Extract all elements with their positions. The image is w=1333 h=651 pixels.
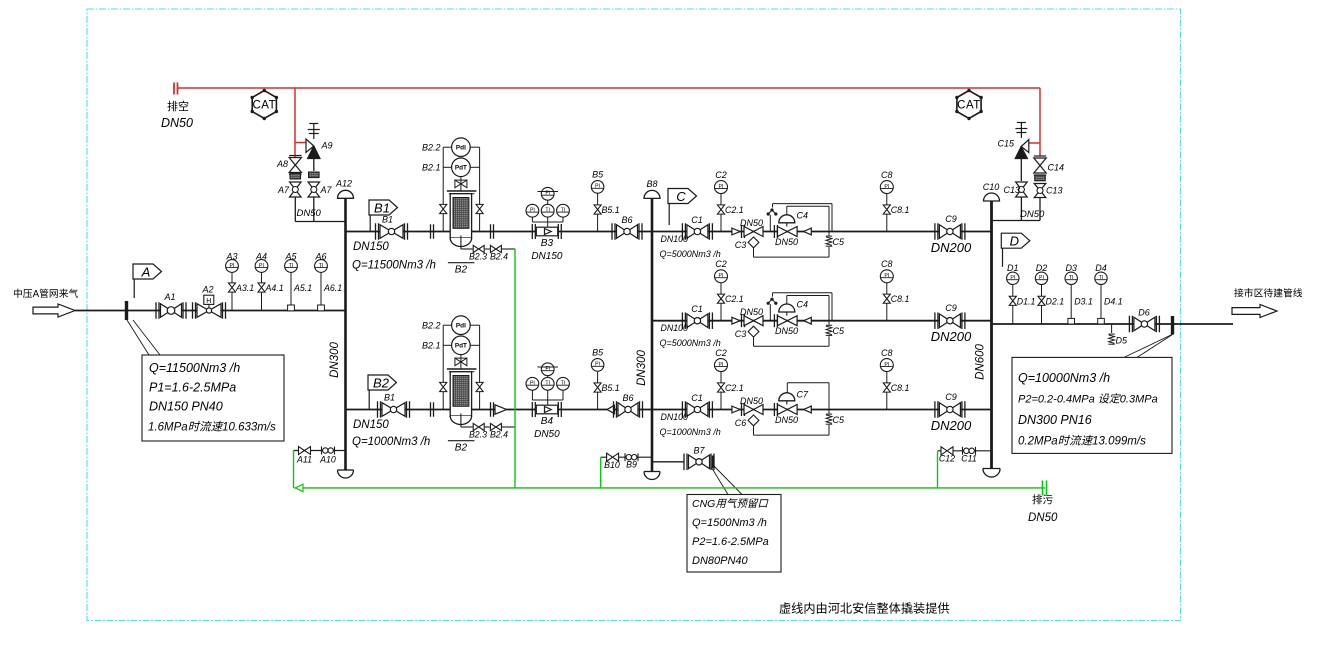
svg-text:C3: C3 [735,240,747,250]
svg-text:C1: C1 [691,393,703,403]
svg-text:DN100: DN100 [661,234,688,244]
dp tap left [442,325,444,409]
dp root valve right [476,204,483,209]
check valve before B6 row B2 [607,405,615,413]
CAT marker right [957,91,981,119]
root valve D1.1 [1009,296,1016,301]
under loop row C3 [753,426,755,435]
svg-text:C3: C3 [735,329,747,339]
pipe row row C3 [652,409,992,411]
valve C14 (vertical) [1034,158,1046,166]
instrument stem D3 [1070,285,1072,325]
svg-text:A1: A1 [163,292,175,302]
svg-text:A5.1: A5.1 [293,283,312,293]
root valve A3.1 [228,283,235,288]
blind flange B7 [712,456,714,469]
valve C13 left (vertical ball) [1016,182,1028,190]
filter vessel B2 [450,194,471,238]
valve C9 row C3 [934,401,936,418]
pilot diamond C6 row C3 [753,414,755,417]
instrument stem C2 row C3 [720,372,722,410]
svg-text:D3.1: D3.1 [1074,296,1093,306]
svg-text:PI: PI [719,273,724,279]
dp root valve left [440,204,447,209]
svg-text:PI: PI [530,381,535,387]
svg-text:TI: TI [319,263,324,269]
pilot diamond C3 row C1 [753,236,755,239]
svg-text:DN50: DN50 [775,237,798,247]
meter gauge bus [531,390,533,400]
svg-text:D1: D1 [1007,263,1019,273]
svg-text:DN50: DN50 [740,218,763,228]
cap bottom right header [983,469,1000,478]
svg-text:PI: PI [884,273,889,279]
svg-text:TI: TI [561,208,566,214]
svg-text:B6: B6 [622,393,633,403]
meter B3 flanges [531,224,533,239]
svg-text:D3: D3 [1065,263,1077,273]
dp tap right [479,147,481,231]
pipe row row C1 [652,231,992,233]
svg-text:C: C [676,189,686,204]
svg-text:B8: B8 [646,179,657,189]
svg-text:A7: A7 [277,185,290,195]
meter gauge mid [541,377,554,390]
svg-text:C9: C9 [945,392,957,402]
drain line C12 C11 [938,450,992,452]
svg-text:C4: C4 [797,210,809,220]
svg-text:DN150 PN40: DN150 PN40 [149,400,223,414]
svg-text:B5.1: B5.1 [602,205,620,215]
flange row C2 b [773,314,775,327]
svg-text:DN300: DN300 [636,350,648,386]
instrument stem C8 row C2 [886,283,888,321]
instrument stem A3 [231,272,233,311]
valve C1 row C3 [681,401,683,418]
gauge C8 row C3 [880,359,893,372]
svg-text:Q=11500Nm3 /h: Q=11500Nm3 /h [149,361,240,375]
cap B8 [644,190,660,198]
svg-text:接市区待建管线: 接市区待建管线 [1234,287,1303,300]
svg-text:B2: B2 [455,265,468,276]
green riser filters [514,249,516,488]
svg-text:B5: B5 [592,170,604,180]
pipe row B2 [346,409,653,411]
flag D [1001,233,1030,248]
spec box CNG [687,495,781,573]
svg-text:0.2MPa时流速13.099m/s: 0.2MPa时流速13.099m/s [1018,435,1146,448]
drain valve A11 [299,447,305,455]
instrument stem A5 [290,272,292,311]
outlet flow arrow [1232,305,1277,318]
instrument stem A6 [320,272,322,311]
svg-text:CAT: CAT [957,100,981,112]
relief pilot C5 row C3 [826,413,832,415]
filter cap [447,190,477,192]
svg-text:C8.1: C8.1 [891,383,910,393]
flag B1 [369,200,398,215]
svg-text:DN50: DN50 [534,429,560,440]
valve C13 right (vertical ball) [1034,184,1046,191]
gauge PdT B2.1 [452,336,471,355]
dp tap right [479,325,481,409]
flange joint after filter [490,224,492,239]
instrument stem B5 [597,371,599,410]
outer pilot loop row C1 [831,204,833,232]
header DN600 [990,201,993,469]
svg-text:TI: TI [289,263,294,269]
svg-text:C8: C8 [881,348,893,358]
thermowell D3 [1068,318,1075,324]
gauge A3 [226,260,239,273]
svg-text:C10: C10 [983,182,1000,192]
instrument stem A4 [261,272,263,311]
svg-text:C5: C5 [833,415,845,425]
svg-text:PdI: PdI [456,323,466,330]
svg-text:A8: A8 [276,159,288,169]
svg-text:DN600: DN600 [975,344,987,380]
svg-text:C9: C9 [945,303,957,313]
spec box A [142,355,284,441]
regulator valve row C1 [778,227,788,237]
svg-text:PI: PI [719,362,724,368]
svg-text:D2.1: D2.1 [1046,296,1065,306]
cap bottom left header [338,470,354,478]
svg-text:DN150: DN150 [353,241,389,253]
svg-text:A2: A2 [201,285,213,295]
valve B6 row B1 [611,223,613,240]
svg-text:H: H [206,298,211,305]
svg-text:PI: PI [595,362,600,368]
svg-text:B3: B3 [541,238,554,249]
gauge B5 [591,359,604,372]
sense line row C1 [769,215,771,232]
svg-text:PdT: PdT [455,165,467,172]
svg-text:A12: A12 [335,179,352,189]
check valve out row C2 [804,317,812,324]
filter drain pipe [460,414,462,428]
svg-text:A3: A3 [225,251,237,261]
meter gauge left [526,377,539,390]
svg-text:C8: C8 [881,170,893,180]
svg-text:DN100: DN100 [661,412,688,422]
svg-text:排污: 排污 [1032,493,1054,506]
relief valve A9 [306,139,314,153]
svg-text:C2: C2 [715,259,727,269]
dp tap left [442,147,444,231]
filter base line [448,262,475,264]
svg-text:1.6MPa时流速10.633m/s: 1.6MPa时流速10.633m/s [148,421,276,434]
thermowell A5 [288,305,295,311]
sense line row C2 [769,304,771,321]
monitor valve row C2 [744,316,754,326]
svg-text:TI: TI [545,381,550,387]
svg-text:B2.2: B2.2 [422,143,441,153]
drain valve A10 [321,447,323,455]
monitor valve row C1 [744,227,754,237]
gauge A4 [255,260,268,273]
svg-text:B1: B1 [374,200,390,215]
svg-text:C9: C9 [945,214,957,224]
svg-text:A6: A6 [314,251,326,261]
svg-text:B2.1: B2.1 [422,341,441,351]
svg-text:CAT: CAT [252,100,276,112]
green end joint [1042,481,1044,496]
svg-text:PdI: PdI [456,145,466,152]
svg-text:C12: C12 [939,454,955,464]
svg-text:Q=1000Nm3 /h: Q=1000Nm3 /h [660,427,721,437]
wire C13R to vent line [1039,198,1041,221]
svg-text:D4.1: D4.1 [1104,296,1123,306]
green riser A [293,451,295,488]
hatch spacer above right A7 [309,172,320,178]
green drain header [294,487,1045,489]
check valve out row C3 [804,406,812,413]
svg-text:A5: A5 [284,251,297,261]
svg-text:B10: B10 [604,460,620,470]
gauge C8 row C2 [880,270,893,283]
cap A12 [338,190,354,198]
svg-text:C1: C1 [691,215,703,225]
valve B6 row B2 [613,401,615,418]
drain valve B2.4 [490,423,496,430]
flag B2 [368,375,397,390]
filter vessel B2 [450,372,471,416]
flange row C3 a [741,403,743,416]
svg-text:DN200: DN200 [931,418,972,433]
wire A7 stack to vent line [313,197,315,222]
meter gauge mid [541,204,554,217]
svg-text:Q=1000Nm3 /h: Q=1000Nm3 /h [352,436,430,448]
svg-text:C15: C15 [997,139,1015,149]
svg-text:A3.1: A3.1 [235,283,254,293]
drain valve B10 [607,453,613,461]
flange row C1 b [773,225,775,238]
svg-text:PI: PI [1010,275,1015,281]
svg-text:DN50: DN50 [1020,209,1045,220]
valve A2 with handle [192,302,194,319]
svg-text:B2: B2 [455,443,468,454]
svg-text:B4: B4 [541,416,554,427]
drain valve B2.3 [473,423,479,430]
check valve row B2 [495,405,507,414]
svg-text:DN50: DN50 [775,326,798,336]
valve A7 right (vertical ball) [308,182,320,190]
meter gauge right [557,204,570,217]
gauge PdI B2.2 [452,316,471,335]
red vent header pipe [178,87,1041,89]
svg-text:C8: C8 [881,259,893,269]
svg-text:C2.1: C2.1 [725,205,744,215]
green header arrow [296,484,304,491]
valve A1 [155,302,157,319]
svg-text:C7: C7 [797,390,809,400]
flange row C1 a [741,225,743,238]
svg-text:B9: B9 [626,460,637,470]
svg-text:Q=5000Nm3 /h: Q=5000Nm3 /h [660,338,721,348]
regulator dome row C1 [786,223,788,227]
check valve row C2 [732,317,740,324]
flow meter B3 [536,227,557,236]
regulator dome row C3 [786,401,788,405]
under loop row C2 [753,337,755,346]
pipe row B1 [346,231,653,233]
thermowell D4 [1098,318,1105,324]
hatch spacer below A8 [290,173,301,179]
root valve C2.1 row C3 [717,383,724,388]
svg-text:C1: C1 [691,304,703,314]
svg-text:C14: C14 [1048,163,1065,173]
inner pilot loop row C2 [786,296,788,305]
svg-text:TI: TI [545,208,550,214]
instrument stem D1 [1012,285,1014,325]
vent collect line right [992,220,1041,222]
pipe row D [992,323,1234,325]
cap C10 [984,193,1000,201]
wire A9 to A7 [313,159,315,172]
svg-text:C6: C6 [735,418,747,428]
svg-text:PI: PI [230,263,235,269]
svg-text:Q=1500Nm3 /h: Q=1500Nm3 /h [692,517,767,529]
svg-text:B2: B2 [373,375,390,390]
svg-text:TI: TI [561,381,566,387]
svg-text:C4: C4 [797,300,809,310]
svg-text:B5: B5 [592,348,604,358]
branch pipe B7 [652,461,684,463]
leader to spec box A [127,320,149,355]
red vent riser right [1039,88,1041,156]
svg-text:DN300 PN16: DN300 PN16 [1018,413,1092,427]
svg-text:D2: D2 [1036,263,1048,273]
svg-text:D: D [1010,234,1019,249]
svg-text:C5: C5 [833,326,845,336]
drain valve C11 [962,447,964,455]
instrument stem C8 row C3 [886,372,888,410]
drain line B9 B10 [601,456,652,458]
drain line A [294,450,346,452]
header DN300 mid [651,198,654,471]
outer pilot loop row C2 [831,293,833,321]
svg-text:D5: D5 [1116,336,1128,346]
leader to CNG box [712,468,729,495]
svg-text:DN150: DN150 [353,419,389,431]
flow meter B4 [536,405,557,414]
valve B1 (row B1) [375,223,377,240]
spec box D [1012,357,1172,453]
svg-text:B1: B1 [382,215,393,225]
svg-text:A9: A9 [321,141,333,151]
flange joint after filter [490,402,492,417]
thermowell A6 [318,305,325,311]
svg-text:B7: B7 [693,446,705,456]
flag C [668,189,697,204]
svg-text:DN50: DN50 [297,208,322,219]
svg-text:C11: C11 [961,454,977,464]
gauge C2 row C2 [715,270,728,283]
valve B7 [683,454,685,471]
wire C13L to vent line [1020,197,1022,221]
root valve A4.1 [258,283,265,288]
svg-text:DN300: DN300 [329,342,341,378]
insulating joint outlet [1171,316,1174,335]
gauge C2 row C3 [715,359,728,372]
CAT marker left [252,91,276,119]
svg-text:B2.3: B2.3 [469,430,487,440]
svg-text:P2=0.2-0.4MPa 设定0.3MPa: P2=0.2-0.4MPa 设定0.3MPa [1018,393,1158,406]
relief pilot C5 row C2 [826,324,832,326]
vent outlet insulating joint [173,83,175,95]
check valve out row C1 [804,228,812,235]
flange joint [430,224,432,239]
wire A8 stack to vent line [294,197,296,222]
meter B4 flanges [531,402,533,417]
svg-text:Q=11500Nm3 /h: Q=11500Nm3 /h [352,260,436,272]
svg-text:B5.1: B5.1 [602,383,620,393]
valve C9 row C2 [934,312,936,329]
pilot glyph row C2 [770,298,773,301]
pilot loop row C3 [786,383,788,393]
svg-text:C13: C13 [1046,186,1063,196]
header DN300 left [344,198,347,470]
svg-text:PI: PI [530,208,535,214]
svg-text:A6.1: A6.1 [323,283,342,293]
flag A [133,264,162,279]
pilot diamond C3 row C2 [753,325,755,328]
gauge A6 [315,260,328,273]
valve B1 (row B2) [377,401,379,418]
svg-text:Q=5000Nm3 /h: Q=5000Nm3 /h [660,249,721,259]
cap bottom mid header [644,472,660,480]
instrument stem D4 [1100,285,1102,325]
root valve C8.1 row C3 [883,383,890,388]
svg-text:A4: A4 [255,251,267,261]
svg-text:PI: PI [259,263,264,269]
valve C9 row C1 [934,223,936,240]
svg-text:A11: A11 [296,455,312,465]
svg-text:D4: D4 [1095,263,1107,273]
svg-text:DN50: DN50 [161,116,193,130]
svg-text:C8.1: C8.1 [891,294,910,304]
svg-text:PI: PI [884,184,889,190]
svg-text:CNG用气预留口: CNG用气预留口 [692,498,769,510]
gauge D3 [1065,272,1077,284]
instrument stem C2 row C2 [720,283,722,321]
root valve C2.1 row C2 [717,294,724,299]
relief pilot C5 row C1 [826,235,832,237]
svg-text:C13: C13 [1004,185,1021,195]
svg-text:D1.1: D1.1 [1017,296,1036,306]
svg-text:PI: PI [884,362,889,368]
gauge C8 row C1 [880,181,893,194]
relief valve C15 [1021,140,1029,153]
svg-text:A4.1: A4.1 [265,283,284,293]
instrument stem D2 [1041,285,1043,325]
svg-text:DN80PN40: DN80PN40 [692,555,749,567]
check valve row C3 [732,406,740,413]
wire C15 to C13 [1020,159,1022,182]
gauge PdI B2.2 [452,138,471,157]
valve D6 [1128,316,1130,333]
gauge C2 row C1 [715,181,728,194]
filter top valve [460,177,462,191]
valve A7 left (vertical ball) [290,182,302,190]
drain valve C12 [941,447,947,455]
red vent riser left [294,88,296,157]
root valve C8.1 row C2 [883,294,890,299]
green riser C [937,452,939,488]
svg-text:B2.2: B2.2 [422,321,441,331]
leader to spec box D [1124,335,1172,358]
